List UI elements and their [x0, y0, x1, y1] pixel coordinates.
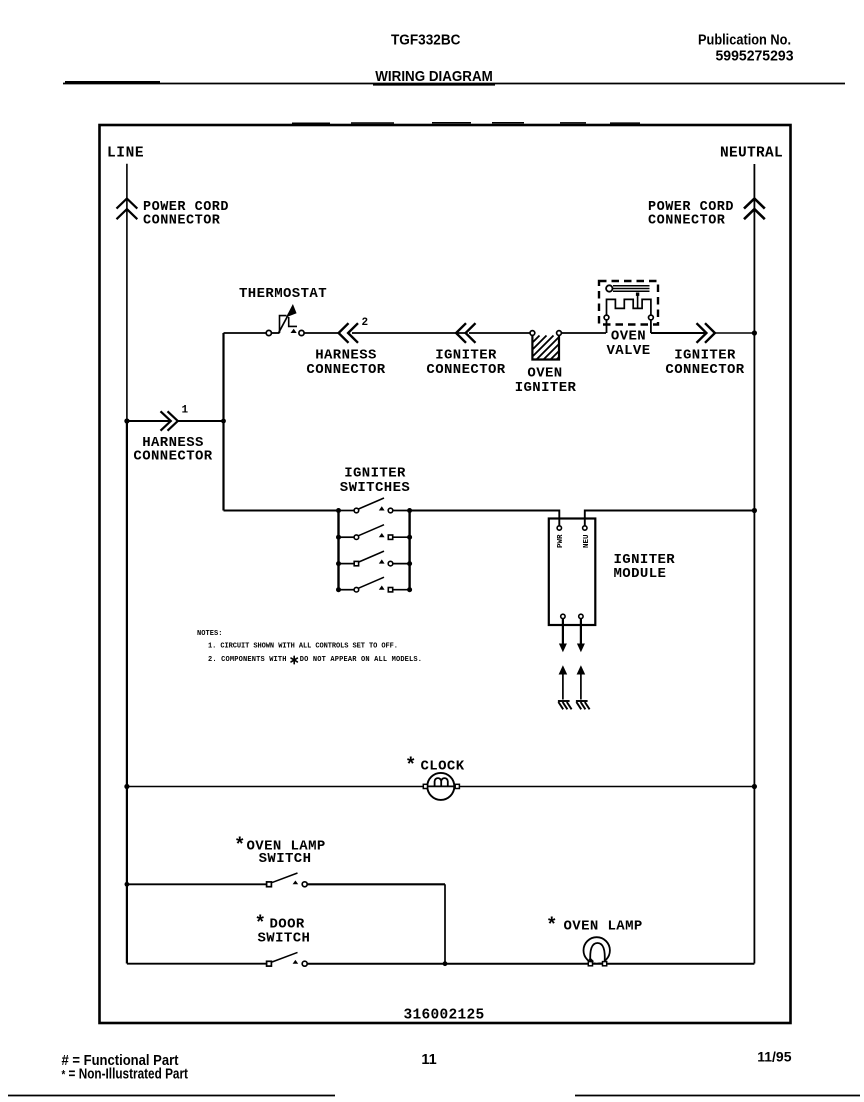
svg-text:WIRING DIAGRAM: WIRING DIAGRAM [375, 68, 493, 85]
svg-text:CONNECTOR: CONNECTOR [143, 214, 221, 229]
svg-text:NOTES:: NOTES: [197, 630, 223, 638]
svg-text:PWR: PWR [557, 534, 565, 548]
svg-text:CONNECTOR: CONNECTOR [133, 449, 212, 465]
svg-text:11: 11 [421, 1052, 436, 1068]
svg-text:TGF332BC: TGF332BC [391, 33, 461, 49]
svg-text:SWITCHES: SWITCHES [340, 480, 410, 496]
svg-text:2. COMPONENTS WITH DO NOT AP: 2. COMPONENTS WITH DO NOT APPEAR ON ALL … [208, 656, 422, 664]
svg-text:*: * [407, 754, 415, 775]
svg-text:LINE: LINE [107, 146, 144, 162]
svg-text:SWITCH: SWITCH [259, 851, 312, 867]
svg-text:*: * [548, 914, 556, 935]
svg-text:CONNECTOR: CONNECTOR [306, 362, 385, 378]
svg-text:316002125: 316002125 [403, 1008, 484, 1024]
svg-text:NEUTRAL: NEUTRAL [720, 146, 783, 162]
svg-text:5995275293: 5995275293 [716, 48, 794, 64]
svg-text:1: 1 [182, 405, 189, 417]
svg-text:CONNECTOR: CONNECTOR [665, 362, 744, 378]
svg-text:1. CIRCUIT SHOWN WITH ALL CONT: 1. CIRCUIT SHOWN WITH ALL CONTROLS SET T… [208, 643, 398, 651]
svg-text:* = Non-Illustrated Part: * = Non-Illustrated Part [62, 1066, 189, 1082]
svg-text:CONNECTOR: CONNECTOR [426, 362, 505, 378]
svg-text:VALVE: VALVE [606, 343, 650, 359]
svg-text:Publication No.: Publication No. [698, 32, 791, 48]
svg-text:MODULE: MODULE [614, 566, 667, 582]
svg-text:THERMOSTAT: THERMOSTAT [239, 286, 327, 302]
svg-text:OVEN LAMP: OVEN LAMP [564, 919, 643, 935]
svg-text:11/95: 11/95 [757, 1049, 791, 1065]
svg-text:NEU: NEU [583, 534, 591, 548]
svg-text:SWITCH: SWITCH [258, 931, 311, 947]
svg-text:CONNECTOR: CONNECTOR [648, 214, 726, 229]
svg-text:*: * [236, 834, 244, 855]
svg-text:IGNITER: IGNITER [515, 380, 577, 396]
svg-text:2: 2 [362, 317, 369, 329]
